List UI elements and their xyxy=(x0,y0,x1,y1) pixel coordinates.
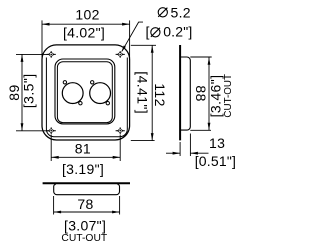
svg-text:78: 78 xyxy=(77,196,93,212)
dimension 102: extension and dimension lines xyxy=(42,20,130,57)
dimension 13: extension and dimension lines xyxy=(166,134,209,157)
front view: plate inner offset line (left/bottom/right) xyxy=(46,58,127,137)
svg-text:CUT-OUT: CUT-OUT xyxy=(61,233,107,244)
dimension 112: bottom arrowhead xyxy=(151,133,154,141)
svg-text:[: [ xyxy=(146,24,150,40)
svg-text:112: 112 xyxy=(152,83,168,107)
svg-text:89: 89 xyxy=(6,84,22,100)
svg-text:81: 81 xyxy=(75,141,91,157)
dimension 88: extension and dimension lines xyxy=(190,57,211,130)
corner mounting hole bottom-right xyxy=(116,127,125,134)
dimension 13: right arrowhead xyxy=(190,152,198,155)
dimension 88: top arrowhead xyxy=(208,57,211,64)
dimension 102: right arrowhead xyxy=(122,23,130,26)
dimension 81: extension and dimension lines xyxy=(51,135,120,162)
dimension 112: extension and dimension lines xyxy=(131,45,156,140)
D1 screw hole bottom-right xyxy=(79,102,82,105)
front view: plate outer outline xyxy=(42,45,130,140)
connector hole D1 (left XLR) xyxy=(62,83,83,104)
svg-text:CUT-OUT: CUT-OUT xyxy=(223,74,234,118)
bottom view: recess profile xyxy=(54,184,120,194)
svg-text:0.2"]: 0.2"] xyxy=(163,24,192,40)
dimension 81: right arrowhead xyxy=(113,156,121,159)
dimension 89: bottom arrowhead xyxy=(21,123,24,131)
svg-text:88: 88 xyxy=(193,85,209,101)
svg-text:[3.5"]: [3.5"] xyxy=(20,73,36,108)
diameter symbol of label (diameter)5.2 xyxy=(158,8,167,17)
dimension 89: extension and dimension lines xyxy=(16,54,48,130)
D1 screw hole top-left xyxy=(63,81,66,84)
svg-text:[3.19"]: [3.19"] xyxy=(62,161,104,177)
dimension 13: left arrowhead xyxy=(173,152,181,155)
diameter symbol of label [(diameter)0.2"] xyxy=(151,28,160,37)
connector hole D2 (right XLR) xyxy=(90,83,111,104)
dish recess outer rounded rect xyxy=(55,59,115,124)
svg-text:5.2: 5.2 xyxy=(171,4,191,20)
svg-text:102: 102 xyxy=(75,6,100,22)
corner mounting hole top-left xyxy=(47,51,56,58)
svg-text:[3.07"]: [3.07"] xyxy=(64,217,106,233)
dish recess inner rounded rect xyxy=(57,62,112,123)
corner mounting hole bottom-left xyxy=(47,127,56,134)
side view: recess profile xyxy=(181,57,190,130)
svg-text:[3.46"]: [3.46"] xyxy=(207,75,223,118)
svg-text:[0.51"]: [0.51"] xyxy=(195,153,236,169)
side view: plate face line xyxy=(179,45,181,140)
dimension 78: left arrowhead xyxy=(54,211,62,214)
D2 screw hole bottom-right xyxy=(106,102,109,105)
dimension 78: extension and dimension lines xyxy=(54,196,120,215)
hole diameter callout leader line xyxy=(122,22,143,51)
bottom view: plate face line xyxy=(43,182,130,184)
dimension 78: right arrowhead xyxy=(112,211,120,214)
dimension 88: bottom arrowhead xyxy=(208,123,211,131)
dimension 102: left arrowhead xyxy=(42,23,50,26)
D2 screw hole top-left xyxy=(91,81,94,84)
svg-text:13: 13 xyxy=(209,135,225,151)
corner mounting hole top-right xyxy=(116,51,125,58)
dimension 112: top arrowhead xyxy=(151,45,154,53)
hole diameter callout arrowhead xyxy=(121,46,126,53)
dimension 89: top arrowhead xyxy=(21,54,24,62)
dimension 81: left arrowhead xyxy=(51,156,59,159)
svg-text:[4.41"]: [4.41"] xyxy=(134,71,150,114)
svg-text:[4.02"]: [4.02"] xyxy=(63,24,105,40)
